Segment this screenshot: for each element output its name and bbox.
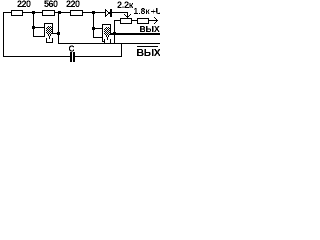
wire vertical x114 bbox=[114, 21, 115, 43]
node C junction dot bbox=[92, 11, 95, 14]
potentiometer R4 2.2k box bbox=[120, 18, 132, 24]
wire VYH output line bbox=[116, 33, 160, 35]
node A junction dot bbox=[32, 11, 35, 14]
wire Q2 emitter to dot bbox=[110, 33, 114, 35]
wire top-left horizontal bbox=[3, 12, 12, 13]
svg-text:220: 220 bbox=[66, 0, 80, 9]
wire arrow to +U bbox=[149, 17, 158, 24]
svg-text:C: C bbox=[69, 44, 75, 54]
wire vertical x58 node B down bbox=[58, 14, 59, 43]
wire bottom rail right bbox=[75, 56, 122, 57]
resistor R1 220 bbox=[11, 10, 23, 16]
junction dot at (114,33) bbox=[113, 32, 116, 35]
wire node B to R3 bbox=[61, 12, 70, 13]
wire left vertical bbox=[3, 12, 4, 57]
diode VD1 bbox=[105, 9, 112, 17]
wire node A to R2 bbox=[35, 12, 42, 13]
wire pot right lead bbox=[132, 20, 137, 21]
wire bottom rail left bbox=[3, 56, 70, 57]
wire diode to corner bbox=[112, 12, 128, 13]
resistor R5 1.8k bbox=[137, 18, 149, 24]
svg-text:ВЫХ: ВЫХ bbox=[137, 47, 161, 59]
node B junction dot bbox=[58, 11, 61, 14]
resistor R2 560 bbox=[42, 10, 55, 16]
wire Q1 collector to node at x58 bbox=[51, 33, 57, 34]
wire VYH-bar line y43 bbox=[58, 43, 160, 44]
wire pot left lead bbox=[114, 20, 120, 21]
wire wiper vertical with arrow down bbox=[124, 13, 131, 18]
svg-text:1.8к: 1.8к bbox=[134, 6, 151, 16]
svg-text:560: 560 bbox=[44, 0, 58, 9]
label VYH-bar overline bbox=[137, 46, 158, 47]
svg-text:+U: +U bbox=[151, 6, 160, 16]
transistor Q1 bbox=[32, 14, 53, 43]
wire R1 to node A bbox=[23, 12, 32, 13]
wire R2 to node B bbox=[55, 12, 58, 13]
wire R3 to node C bbox=[83, 12, 92, 13]
resistor R3 220 bbox=[70, 10, 83, 16]
svg-text:ВЫХ: ВЫХ bbox=[140, 24, 160, 34]
svg-text:2.2к: 2.2к bbox=[117, 0, 134, 10]
wire node C to diode bbox=[95, 12, 105, 13]
wire vertical x121 to bottom rail bbox=[121, 44, 122, 57]
transistor Q2 bbox=[92, 14, 111, 44]
node dot at (58,33) bbox=[57, 32, 60, 35]
svg-text:220: 220 bbox=[17, 0, 31, 9]
capacitor C bbox=[70, 52, 75, 62]
